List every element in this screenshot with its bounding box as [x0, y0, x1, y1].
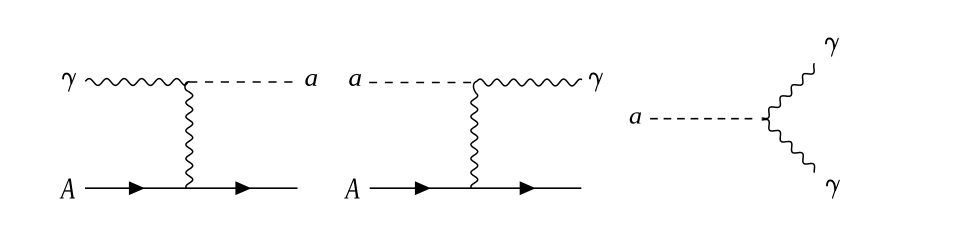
wire dashed axion line (diagram 2) — [369, 82, 474, 84]
label gamma (diagram 3 lower photon) — [827, 180, 839, 198]
label A (diagram 2 nucleus) — [344, 179, 359, 199]
wire fermion line A (diagram 2) — [370, 187, 582, 189]
label gamma (diagram 3 upper photon) — [826, 38, 838, 56]
wire dashed axion line (diagram 3) — [650, 118, 753, 120]
label a (diagram 3 incoming axion) — [630, 112, 641, 124]
label A (diagram 1 nucleus) — [60, 179, 75, 199]
wire photon wavy line from gamma (diagram 1 horizontal) — [85, 79, 185, 86]
arrow 2 on fermion line (diagram 2) — [520, 181, 536, 195]
wire dashed axion line (diagram 1) — [189, 81, 293, 83]
label a (diagram 1 outgoing axion) — [305, 74, 317, 86]
label a (diagram 2 incoming axion) — [349, 74, 361, 86]
arrow 1 on fermion line (diagram 2) — [415, 181, 431, 195]
wire photon wavy line t-channel exchange (diagram 2 vertical) — [471, 94, 478, 189]
label gamma (diagram 1 incoming photon) — [63, 73, 75, 91]
wire photon wavy line (diagram 3 upper gamma) — [762, 63, 815, 118]
arrow 2 on fermion line (diagram 1) — [235, 181, 251, 195]
wire photon wavy line to gamma (diagram 2 horizontal) — [477, 79, 582, 86]
junction curl at vertex (diagram 1) — [185, 82, 188, 92]
arrow 1 on fermion line (diagram 1) — [129, 181, 145, 195]
junction curl at vertex (diagram 2) — [473, 81, 477, 93]
wire fermion line A (diagram 1) — [85, 187, 298, 189]
label gamma (diagram 2 outgoing photon) — [590, 73, 602, 91]
wire photon wavy line (diagram 3 lower gamma) — [762, 119, 815, 172]
wire photon wavy line t-channel exchange (diagram 1 vertical) — [186, 91, 193, 188]
